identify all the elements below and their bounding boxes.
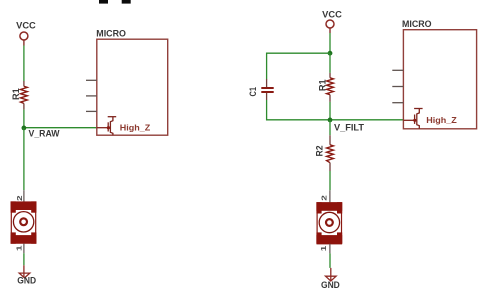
svg-text:2: 2 — [17, 195, 24, 201]
wire switch S1 to GND — [23, 253, 25, 265]
wire V_RAW down to switch S1 — [23, 128, 25, 190]
MICRO pin stub 3 (left) — [86, 110, 97, 112]
svg-text:VCC: VCC — [16, 20, 36, 30]
svg-text:1: 1 — [16, 245, 23, 251]
svg-text:R1: R1 — [318, 79, 328, 91]
cropped title descender left — [99, 0, 108, 4]
MICRO pin stub 1 (right) — [392, 69, 403, 71]
wire C1 to bottom rail — [267, 100, 330, 120]
junction node V_RAW — [22, 126, 27, 131]
wire R1 to node V_FILT — [329, 102, 331, 120]
switch S2 pin 1 stub — [329, 244, 331, 254]
resistor R2 — [327, 135, 334, 171]
VCC pin (left) — [23, 40, 25, 45]
transistor High_Z (right) — [403, 109, 422, 129]
capacitor C1 — [261, 79, 273, 100]
transistor High_Z (left) — [97, 117, 116, 136]
junction node V_FILT — [328, 118, 333, 123]
wire node V_RAW to MICRO gate — [24, 127, 97, 129]
wire node V_FILT to MICRO gate (right) — [330, 119, 403, 121]
MICRO box (right) — [403, 30, 476, 129]
svg-text:1: 1 — [321, 245, 328, 251]
svg-text:2: 2 — [322, 195, 329, 201]
svg-text:R1: R1 — [11, 88, 21, 100]
wire R1 to node V_RAW — [23, 110, 25, 128]
junction top node (right) — [328, 51, 333, 56]
MICRO pin stub 2 (left) — [86, 95, 97, 97]
wire V_FILT down to R2 — [329, 120, 331, 135]
wire VCC to top node (right) — [329, 33, 331, 53]
VCC pin (right) — [329, 28, 331, 33]
svg-text:C1: C1 — [248, 87, 258, 97]
supply VCC circle (right) — [326, 20, 334, 28]
svg-text:V_FILT: V_FILT — [334, 122, 364, 133]
resistor R1 (right) — [327, 73, 334, 102]
MICRO pin stub 3 (right) — [392, 102, 403, 104]
svg-text:V_RAW: V_RAW — [29, 128, 60, 138]
resistor R1 (left) — [21, 81, 28, 110]
wire top node to R1 (right) — [329, 53, 331, 73]
svg-text:R2: R2 — [315, 146, 325, 157]
switch S1 body — [11, 201, 37, 243]
switch S2 body — [316, 202, 342, 244]
MICRO pin stub 2 (right) — [392, 86, 403, 88]
cropped title descender right — [122, 0, 131, 4]
supply VCC circle (left) — [20, 32, 28, 40]
svg-text:GND: GND — [321, 280, 340, 290]
svg-text:VCC: VCC — [322, 10, 342, 20]
wire R2 to switch S2 — [329, 171, 331, 190]
wire switch S2 to GND — [329, 253, 331, 268]
svg-text:MICRO: MICRO — [96, 28, 126, 39]
ground GND symbol (left) — [19, 265, 30, 278]
MICRO pin stub 1 (left) — [86, 79, 97, 81]
switch S2 pin 2 stub — [329, 190, 331, 202]
wire top rail to C1 branch — [267, 53, 330, 79]
svg-text:High_Z: High_Z — [426, 115, 457, 125]
svg-text:MICRO: MICRO — [402, 19, 432, 30]
switch S1 pin 2 stub — [23, 190, 25, 202]
MICRO box (left) — [97, 39, 168, 135]
ground GND symbol (right) — [326, 268, 337, 281]
svg-text:GND: GND — [17, 276, 36, 286]
switch S1 pin 1 stub — [23, 244, 25, 254]
wire VCC to R1 (left) — [23, 46, 25, 82]
svg-text:High_Z: High_Z — [120, 122, 151, 132]
